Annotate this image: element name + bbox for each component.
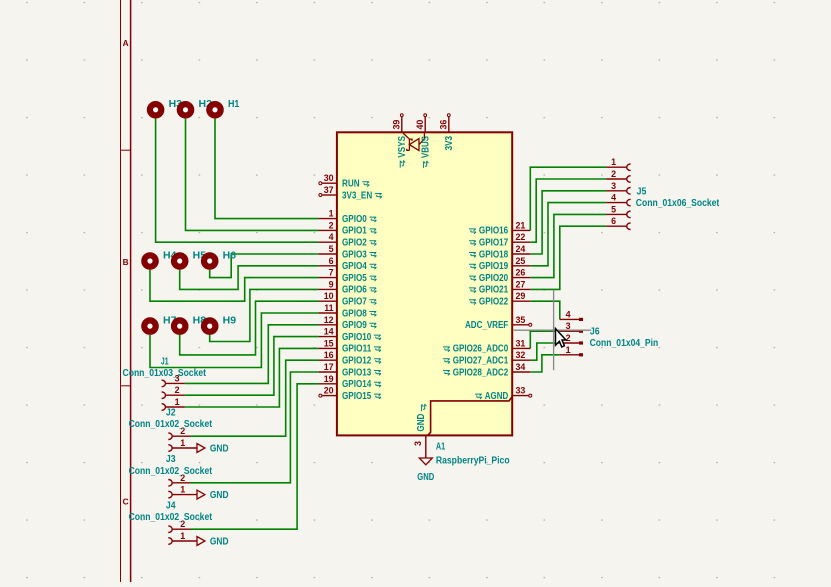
svg-text:H9: H9 bbox=[223, 316, 237, 327]
pico pin 15 GPIO11 (left) bbox=[319, 338, 372, 354]
svg-text:AGND: AGND bbox=[485, 391, 508, 402]
svg-text:J3: J3 bbox=[166, 454, 176, 465]
svg-text:RaspberryPi_Pico: RaspberryPi_Pico bbox=[436, 455, 510, 466]
wire GPIO22 to J6 pin4 bbox=[530, 301, 560, 319]
svg-text:B: B bbox=[123, 257, 129, 267]
pico pin 27 GPIO21 (right) bbox=[479, 279, 530, 295]
wire J1 pin2 to GPIO10 bbox=[185, 337, 319, 396]
svg-text:2: 2 bbox=[329, 220, 334, 230]
svg-text:4: 4 bbox=[611, 193, 616, 203]
svg-text:J4: J4 bbox=[166, 500, 176, 511]
mounting hole H3 bbox=[150, 104, 161, 115]
svg-text:34: 34 bbox=[516, 362, 526, 372]
svg-text:3V3: 3V3 bbox=[444, 136, 455, 151]
wire GPIO27_ADC1 to J6 pin2 bbox=[530, 343, 560, 360]
svg-text:C: C bbox=[123, 497, 129, 507]
svg-text:37: 37 bbox=[324, 185, 334, 195]
svg-text:Conn_01x03_Socket: Conn_01x03_Socket bbox=[123, 368, 207, 379]
svg-text:3V3_EN: 3V3_EN bbox=[342, 190, 372, 201]
svg-text:29: 29 bbox=[516, 291, 526, 301]
svg-text:GPIO20: GPIO20 bbox=[479, 273, 509, 284]
wire J1 pin3 to GPIO9 bbox=[185, 325, 319, 384]
svg-text:GPIO1: GPIO1 bbox=[342, 226, 367, 237]
svg-text:3: 3 bbox=[413, 441, 423, 446]
pico pin 31 GPIO26_ADC0 (right) bbox=[453, 338, 531, 354]
svg-text:6: 6 bbox=[329, 256, 334, 266]
connector J1 Conn_01x03_Socket bbox=[162, 373, 185, 410]
svg-text:GPIO12: GPIO12 bbox=[342, 356, 372, 367]
mounting hole H2 bbox=[180, 104, 191, 115]
svg-text:33: 33 bbox=[516, 386, 526, 396]
wire GPIO28_ADC2 to J6 pin1 bbox=[530, 355, 560, 372]
pico pin 20 GPIO15 (left) bbox=[319, 386, 372, 402]
pico pin 7 GPIO5 (left) bbox=[319, 268, 368, 284]
svg-text:A: A bbox=[123, 38, 129, 48]
svg-text:GPIO14: GPIO14 bbox=[342, 379, 372, 390]
pico pin 25 GPIO19 (right) bbox=[479, 256, 530, 272]
svg-text:GPIO18: GPIO18 bbox=[479, 249, 509, 260]
svg-text:GPIO0: GPIO0 bbox=[342, 214, 367, 225]
pico pin 22 GPIO17 (right) bbox=[479, 232, 530, 248]
mounting hole H4 bbox=[144, 255, 155, 266]
svg-text:GPIO7: GPIO7 bbox=[342, 297, 367, 308]
svg-text:30: 30 bbox=[324, 173, 334, 183]
svg-text:GPIO11: GPIO11 bbox=[342, 344, 372, 355]
pico pin 24 GPIO18 (right) bbox=[479, 244, 530, 260]
wire H3 to GPIO2 bbox=[156, 119, 319, 243]
svg-text:20: 20 bbox=[324, 386, 334, 396]
svg-text:Conn_01x06_Socket: Conn_01x06_Socket bbox=[636, 198, 720, 209]
svg-text:14: 14 bbox=[324, 327, 334, 337]
svg-text:GPIO8: GPIO8 bbox=[342, 308, 367, 319]
svg-text:2: 2 bbox=[175, 385, 180, 395]
svg-text:GND: GND bbox=[210, 536, 229, 547]
pico pin 11 GPIO8 (left) bbox=[319, 303, 368, 319]
svg-text:1: 1 bbox=[180, 531, 185, 541]
svg-text:1: 1 bbox=[566, 345, 571, 355]
svg-text:6: 6 bbox=[611, 216, 616, 226]
pico pin 17 GPIO13 (left) bbox=[319, 362, 372, 378]
pico pin 39 VSYS (top) bbox=[391, 114, 408, 158]
svg-text:GPIO13: GPIO13 bbox=[342, 367, 372, 378]
svg-text:Conn_01x02_Socket: Conn_01x02_Socket bbox=[129, 466, 213, 477]
svg-text:GPIO26_ADC0: GPIO26_ADC0 bbox=[453, 344, 509, 355]
svg-text:GPIO17: GPIO17 bbox=[479, 238, 509, 249]
svg-text:VBUS: VBUS bbox=[421, 136, 432, 158]
mounting hole H1 bbox=[209, 104, 220, 115]
svg-text:Conn_01x02_Socket: Conn_01x02_Socket bbox=[129, 419, 213, 430]
mounting hole H7 bbox=[144, 320, 155, 331]
svg-text:4: 4 bbox=[566, 309, 571, 319]
wire J1 pin1 to GPIO11 bbox=[185, 348, 319, 407]
GND power symbol at pico pin 3 bbox=[419, 458, 432, 465]
wire H5 to GPIO4 bbox=[180, 266, 319, 290]
wire H1 to GPIO0 bbox=[215, 119, 319, 219]
svg-text:2: 2 bbox=[611, 169, 616, 179]
svg-text:19: 19 bbox=[324, 374, 334, 384]
connector J4 Conn_01x02_Socket bbox=[168, 519, 197, 544]
svg-text:GND: GND bbox=[417, 472, 434, 483]
pico pin 2 GPIO1 (left) bbox=[319, 220, 368, 236]
svg-text:17: 17 bbox=[324, 362, 334, 372]
wire GPIO21 to J5 pin6 bbox=[530, 226, 606, 289]
svg-text:40: 40 bbox=[415, 120, 425, 130]
pico pin 21 GPIO16 (right) bbox=[479, 220, 530, 236]
svg-text:5: 5 bbox=[611, 204, 616, 214]
GND power symbol at J4 pin1 bbox=[197, 537, 205, 546]
pico pin 14 GPIO10 (left) bbox=[319, 327, 372, 343]
svg-text:36: 36 bbox=[438, 120, 448, 130]
wire GPIO18 to J5 pin3 bbox=[530, 191, 606, 254]
svg-text:10: 10 bbox=[324, 291, 334, 301]
wire GPIO26_ADC0 to J6 pin3 bbox=[530, 331, 560, 348]
pico pin 16 GPIO12 (left) bbox=[319, 350, 372, 366]
svg-text:3: 3 bbox=[611, 181, 616, 191]
svg-text:12: 12 bbox=[324, 315, 334, 325]
svg-text:GPIO27_ADC1: GPIO27_ADC1 bbox=[453, 356, 509, 367]
svg-text:7: 7 bbox=[329, 268, 334, 278]
mounting hole H6 bbox=[204, 255, 215, 266]
svg-text:GPIO19: GPIO19 bbox=[479, 261, 509, 272]
svg-text:35: 35 bbox=[516, 315, 526, 325]
svg-text:H1: H1 bbox=[228, 99, 240, 110]
wire H8 to GPIO7 bbox=[180, 301, 319, 355]
svg-text:VSYS: VSYS bbox=[397, 136, 408, 158]
svg-text:1: 1 bbox=[180, 485, 185, 495]
pico pin 9 GPIO6 (left) bbox=[319, 279, 368, 295]
svg-text:J1: J1 bbox=[161, 356, 169, 367]
svg-text:GPIO3: GPIO3 bbox=[342, 249, 367, 260]
svg-text:1: 1 bbox=[175, 397, 180, 407]
svg-text:GND: GND bbox=[416, 414, 427, 432]
svg-text:GPIO15: GPIO15 bbox=[342, 391, 372, 402]
svg-text:GPIO10: GPIO10 bbox=[342, 332, 372, 343]
wire H6 to GPIO3 bbox=[210, 254, 319, 278]
wire J2 pin2 to GPIO12 bbox=[191, 360, 319, 436]
pico internal boundary line (AGND region) bbox=[428, 397, 513, 436]
Raspberry Pi Pico A1 symbol body bbox=[337, 132, 512, 435]
svg-text:Conn_01x04_Pin: Conn_01x04_Pin bbox=[590, 338, 659, 349]
pico pin 36 3V3 (top) bbox=[438, 114, 455, 151]
svg-text:ADC_VREF: ADC_VREF bbox=[465, 320, 508, 331]
pico pin 5 GPIO3 (left) bbox=[319, 244, 368, 260]
svg-text:24: 24 bbox=[516, 244, 526, 254]
GND power symbol at J3 pin1 bbox=[197, 490, 205, 499]
svg-text:21: 21 bbox=[516, 220, 526, 230]
svg-text:15: 15 bbox=[324, 338, 334, 348]
pico pin 1 GPIO0 (left) bbox=[319, 209, 368, 225]
pico internal schottky diode bbox=[403, 133, 424, 151]
pico pin 29 GPIO22 (right) bbox=[479, 291, 530, 307]
svg-text:Conn_01x02_Socket: Conn_01x02_Socket bbox=[129, 512, 213, 523]
svg-text:H6: H6 bbox=[223, 250, 237, 261]
pico pin 30 RUN (left) bbox=[319, 173, 360, 189]
wire H9 to GPIO6 bbox=[210, 289, 319, 341]
svg-text:GPIO2: GPIO2 bbox=[342, 238, 367, 249]
svg-text:39: 39 bbox=[391, 120, 401, 130]
pico pin 10 GPIO7 (left) bbox=[319, 291, 368, 307]
svg-text:GND: GND bbox=[210, 443, 229, 454]
svg-text:GPIO4: GPIO4 bbox=[342, 261, 367, 272]
wire J4 pin2 to GPIO14 bbox=[191, 384, 319, 529]
svg-text:4: 4 bbox=[329, 232, 334, 242]
pico pin 4 GPIO2 (left) bbox=[319, 232, 368, 248]
wire GPIO20 to J5 pin5 bbox=[530, 214, 606, 277]
svg-text:9: 9 bbox=[329, 279, 334, 289]
connector J6 Conn_01x04_Pin bbox=[560, 309, 583, 354]
pico pin 26 GPIO20 (right) bbox=[479, 268, 530, 284]
wire H2 to GPIO1 bbox=[186, 119, 319, 231]
editor crosshair horizontal bbox=[514, 329, 591, 331]
wire GPIO17 to J5 pin2 bbox=[530, 179, 606, 242]
connector J2 Conn_01x02_Socket bbox=[168, 426, 197, 451]
svg-text:GPIO6: GPIO6 bbox=[342, 285, 367, 296]
svg-text:GPIO9: GPIO9 bbox=[342, 320, 367, 331]
svg-text:GPIO22: GPIO22 bbox=[479, 297, 509, 308]
svg-text:GPIO28_ADC2: GPIO28_ADC2 bbox=[453, 367, 509, 378]
pico pin 6 GPIO4 (left) bbox=[319, 256, 368, 272]
svg-text:1: 1 bbox=[180, 438, 185, 448]
pico pin 34 GPIO28_ADC2 (right) bbox=[453, 362, 531, 378]
GND power symbol at J2 pin1 bbox=[197, 444, 205, 453]
svg-text:J2: J2 bbox=[166, 407, 176, 418]
svg-text:1: 1 bbox=[611, 157, 616, 167]
pico pin 33 AGND (right) bbox=[485, 386, 532, 402]
pico pin 12 GPIO9 (left) bbox=[319, 315, 368, 331]
wire H7 to GPIO8 bbox=[150, 313, 319, 368]
svg-text:25: 25 bbox=[516, 256, 526, 266]
pico pin 19 GPIO14 (left) bbox=[319, 374, 372, 390]
svg-text:16: 16 bbox=[324, 350, 334, 360]
svg-text:2: 2 bbox=[566, 333, 571, 343]
editor crosshair vertical bbox=[553, 290, 555, 370]
svg-text:GPIO5: GPIO5 bbox=[342, 273, 367, 284]
mouse cursor arrow bbox=[556, 329, 566, 347]
svg-text:J6: J6 bbox=[590, 326, 600, 337]
svg-text:J5: J5 bbox=[637, 186, 647, 197]
svg-text:1: 1 bbox=[329, 209, 334, 219]
mounting hole H8 bbox=[174, 320, 185, 331]
pico pin 37 3V3_EN (left) bbox=[319, 185, 372, 201]
svg-text:5: 5 bbox=[329, 244, 334, 254]
svg-text:A1: A1 bbox=[436, 441, 445, 452]
svg-text:26: 26 bbox=[516, 268, 526, 278]
pico pin 3 GND (bottom) bbox=[413, 414, 427, 458]
wire H4 to GPIO5 bbox=[150, 270, 319, 301]
wire GPIO19 to J5 pin4 bbox=[530, 203, 606, 266]
svg-text:27: 27 bbox=[516, 279, 526, 289]
wire J3 pin2 to GPIO13 bbox=[191, 372, 319, 483]
connector J5 Conn_01x06_Socket bbox=[606, 157, 630, 229]
svg-text:GPIO16: GPIO16 bbox=[479, 226, 509, 237]
mounting hole H5 bbox=[174, 255, 185, 266]
svg-text:32: 32 bbox=[516, 350, 526, 360]
wire GPIO16 to J5 pin1 bbox=[530, 167, 606, 230]
svg-text:GPIO21: GPIO21 bbox=[479, 285, 509, 296]
svg-text:RUN: RUN bbox=[342, 179, 360, 190]
svg-text:22: 22 bbox=[516, 232, 526, 242]
svg-text:31: 31 bbox=[516, 338, 526, 348]
svg-text:11: 11 bbox=[324, 303, 333, 313]
pico pin 35 ADC_VREF (right) bbox=[465, 315, 532, 331]
mounting hole H9 bbox=[204, 320, 215, 331]
connector J3 Conn_01x02_Socket bbox=[168, 473, 197, 498]
svg-text:GND: GND bbox=[210, 490, 229, 501]
pico pin 32 GPIO27_ADC1 (right) bbox=[453, 350, 531, 366]
pico pin 40 VBUS (top) bbox=[415, 114, 432, 158]
